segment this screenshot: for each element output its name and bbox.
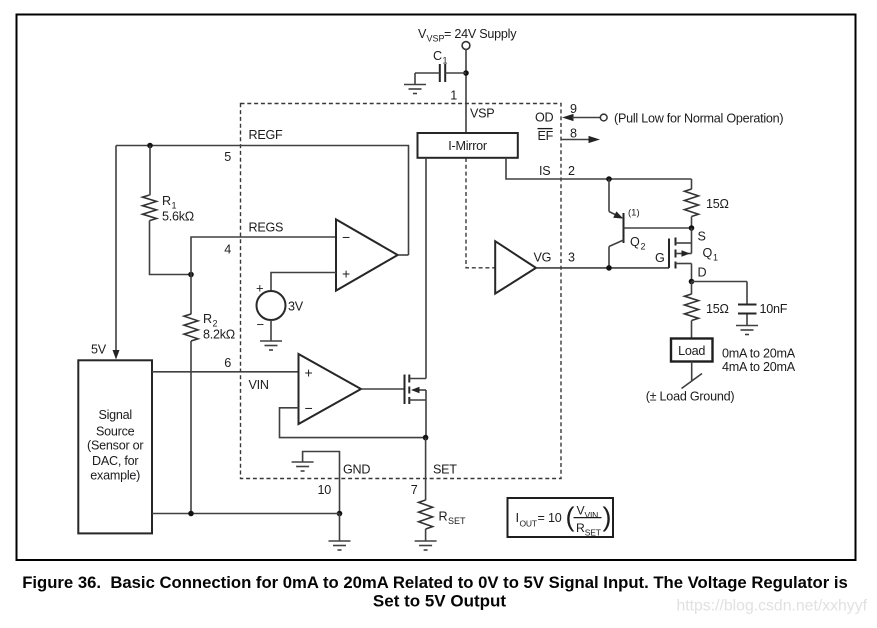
wire VG (pin 3): [536, 267, 669, 269]
transistor M1 (internal NMOS): [405, 158, 427, 438]
svg-text:(: (: [566, 502, 575, 532]
svg-text:8.2kΩ: 8.2kΩ: [203, 328, 235, 342]
wire 5V feed down to signal source: [115, 146, 117, 353]
supply label VVSP = 24V Supply: [418, 27, 517, 44]
wire load to ground tap: [691, 362, 693, 381]
svg-text:2: 2: [568, 164, 575, 178]
node R1/R2/REGS junction: [188, 272, 194, 278]
supply terminal circle: [462, 42, 470, 50]
svg-text:5: 5: [224, 150, 231, 164]
wire VSP vertical: [465, 49, 467, 133]
ground (C1): [404, 85, 426, 94]
label C1: [433, 49, 448, 66]
label Q1: [703, 246, 719, 263]
node junction C1/VSP: [463, 70, 469, 76]
wire D to snubber: [692, 281, 748, 283]
svg-text:= 24V Supply: = 24V Supply: [444, 27, 517, 41]
svg-text:DAC, for: DAC, for: [92, 454, 138, 468]
resistor R1 5.6k: [143, 146, 192, 275]
svg-text:3V: 3V: [288, 300, 304, 314]
svg-text:Q: Q: [630, 235, 640, 249]
ground (RSET): [415, 541, 437, 550]
svg-text:=: =: [538, 511, 545, 525]
voltage source 3V: [257, 273, 337, 341]
svg-text:1: 1: [443, 56, 448, 66]
svg-text:(1): (1): [628, 208, 640, 219]
svg-text:Signal: Signal: [98, 408, 132, 422]
svg-text:R: R: [162, 194, 171, 208]
formula box IOUT = 10 (VVIN/RSET): [508, 498, 614, 538]
svg-text:+: +: [342, 266, 350, 282]
svg-text:5.6kΩ: 5.6kΩ: [162, 210, 194, 224]
I-Mirror block U1: [418, 133, 518, 158]
svg-text:(Pull Low for Normal Operation: (Pull Low for Normal Operation): [614, 111, 783, 125]
svg-text:VIN: VIN: [585, 510, 599, 520]
svg-text:0mA to 20mA: 0mA to 20mA: [722, 347, 796, 361]
svg-text:15Ω: 15Ω: [706, 302, 729, 316]
svg-text:3: 3: [568, 251, 575, 265]
svg-text:EF: EF: [538, 129, 554, 143]
internal dashed link I-Mirror to VG buffer: [466, 158, 495, 268]
wire GND to ground: [339, 514, 341, 541]
wire VIN (pin 6): [152, 371, 299, 373]
transistor Q2 (external PNP): [609, 179, 692, 268]
svg-text:SET: SET: [433, 463, 457, 477]
wire SET (pin 7): [425, 438, 427, 501]
node VG junction: [606, 265, 612, 271]
load box: [671, 339, 713, 362]
transistor Q1 (external PMOS): [669, 228, 692, 282]
load ground slash: [682, 374, 703, 389]
svg-text:10: 10: [317, 483, 331, 497]
label Q2: [630, 235, 646, 252]
ground (GND pin inside IC): [292, 462, 314, 471]
svg-text:+: +: [256, 281, 264, 296]
svg-text:1: 1: [713, 253, 718, 263]
svg-text:https://blog.csdn.net/xxhyyf: https://blog.csdn.net/xxhyyf: [676, 598, 867, 615]
svg-text:R: R: [203, 312, 212, 326]
svg-text:VIN: VIN: [249, 378, 269, 392]
svg-text:2: 2: [641, 242, 646, 252]
pin EF label (overline): [538, 129, 554, 144]
node IS junction: [606, 176, 612, 182]
svg-text:D: D: [698, 266, 707, 280]
svg-text:(Sensor or: (Sensor or: [87, 439, 143, 453]
ground (3V source): [260, 341, 282, 350]
pin EF (8) output arrow: [561, 136, 600, 143]
node GND junction: [337, 511, 343, 517]
capacitor C1: [415, 64, 466, 84]
capacitor 10nF: [738, 282, 757, 326]
IC dashed boundary box: [241, 104, 562, 479]
svg-text:REGF: REGF: [249, 128, 284, 142]
node R2 to common junction: [188, 511, 194, 517]
svg-text:Q: Q: [703, 246, 713, 260]
wire U2 output to REGF: [398, 254, 409, 256]
svg-text:G: G: [655, 251, 665, 265]
ground (10nF): [736, 326, 758, 335]
svg-text:9: 9: [570, 102, 577, 116]
wire REGF (pin 5): [116, 146, 409, 256]
ground (system common): [329, 541, 351, 550]
wire GND (pin 10): [303, 452, 340, 514]
signal source text: [87, 408, 143, 483]
resistor RSET: [419, 500, 433, 541]
label R1: [162, 194, 177, 211]
svg-text:OUT: OUT: [520, 519, 537, 529]
svg-text:15Ω: 15Ω: [706, 197, 729, 211]
svg-text:Set to 5V Output: Set to 5V Output: [373, 592, 507, 611]
resistor 15 ohm (sense): [685, 179, 699, 228]
svg-text:OD: OD: [535, 111, 554, 125]
wire REGS (pin 4): [191, 237, 336, 275]
svg-text:SET: SET: [448, 516, 466, 526]
svg-text:10: 10: [548, 511, 562, 525]
svg-text:4: 4: [224, 243, 231, 257]
svg-text:7: 7: [411, 483, 418, 497]
node D junction: [689, 279, 695, 285]
svg-text:+: +: [305, 365, 313, 381]
svg-text:example): example): [90, 469, 140, 483]
wire U3 output to M1 gate: [361, 388, 405, 390]
svg-text:C: C: [433, 49, 442, 63]
svg-text:8: 8: [570, 127, 577, 141]
svg-text:I-Mirror: I-Mirror: [448, 139, 487, 153]
svg-text:SET: SET: [585, 528, 601, 538]
label RSET: [439, 510, 467, 527]
svg-text:−: −: [342, 229, 350, 245]
signal source box: [78, 360, 152, 533]
svg-text:S: S: [698, 230, 706, 244]
node S junction: [689, 225, 695, 231]
svg-text:R: R: [576, 521, 585, 535]
svg-text:VSP: VSP: [470, 107, 494, 121]
op-amp U2 (REGS amp): [336, 219, 398, 290]
resistor R2 8.2k: [184, 275, 198, 514]
op-amp U3 (VIN amp): [299, 354, 362, 424]
resistor 15 ohm (load side): [685, 282, 699, 339]
svg-text:VG: VG: [534, 251, 552, 265]
svg-text:10nF: 10nF: [760, 302, 788, 316]
wire signal source common: [152, 513, 340, 515]
svg-text:REGS: REGS: [249, 221, 284, 235]
svg-text:VSP: VSP: [427, 34, 445, 44]
svg-text:IS: IS: [539, 164, 550, 178]
svg-text:Figure 36. Basic Connection f: Figure 36. Basic Connection for 0mA to 2…: [22, 573, 848, 592]
svg-text:4mA to 20mA: 4mA to 20mA: [722, 360, 796, 374]
svg-text:−: −: [257, 317, 265, 332]
svg-text:R: R: [439, 510, 448, 524]
svg-text:−: −: [305, 400, 313, 416]
label R2: [203, 312, 218, 329]
svg-text:1: 1: [450, 89, 457, 103]
svg-text:GND: GND: [343, 463, 370, 477]
label output ranges: [722, 347, 796, 375]
buffer U4 (VG driver): [495, 241, 536, 293]
pin OD (9) pull-low input: [562, 114, 607, 121]
svg-text:Load: Load: [678, 344, 705, 358]
svg-text:Source: Source: [96, 424, 135, 438]
wire U3 feedback from SET node: [280, 408, 426, 438]
svg-text:5V: 5V: [91, 343, 107, 357]
svg-text:(± Load Ground): (± Load Ground): [646, 390, 735, 404]
node SET junction: [423, 435, 429, 441]
svg-text:): ): [603, 502, 612, 532]
wire IS (pin 2): [506, 158, 692, 179]
arrowhead into signal source: [113, 350, 120, 360]
node REGF/R1 junction: [147, 143, 153, 149]
svg-text:6: 6: [224, 356, 231, 370]
